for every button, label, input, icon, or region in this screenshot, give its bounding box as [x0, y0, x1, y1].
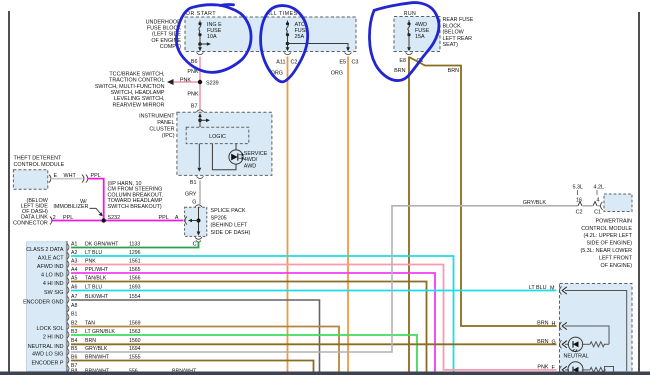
svg-text:5.3L: 5.3L — [573, 184, 584, 190]
svg-text:CLUSTER: CLUSTER — [149, 127, 174, 133]
inline connector — [82, 175, 88, 183]
svg-text:C2: C2 — [291, 60, 298, 66]
svg-text:BLOCK: BLOCK — [443, 23, 462, 29]
pin B6 exit arrow — [199, 46, 201, 48]
rear fuse block caption — [443, 17, 474, 48]
svg-text:PPL: PPL — [63, 215, 73, 221]
svg-text:A7: A7 — [71, 294, 77, 300]
svg-text:A1: A1 — [71, 241, 77, 247]
svg-text:SEAT): SEAT) — [443, 42, 459, 48]
svg-text:CONTROL MODULE: CONTROL MODULE — [14, 162, 65, 168]
wire PNK B6 to IPC — [199, 57, 201, 110]
svg-text:BLK/WHT: BLK/WHT — [85, 294, 109, 300]
svg-text:1560: 1560 — [129, 338, 141, 344]
svg-text:4.2L: 4.2L — [594, 184, 605, 190]
svg-text:WHT: WHT — [64, 173, 77, 179]
svg-text:PANEL: PANEL — [157, 120, 174, 126]
svg-text:A5: A5 — [71, 275, 77, 281]
svg-text:LEFT FRONT: LEFT FRONT — [599, 255, 633, 261]
wire BRN from E8 straight down — [408, 57, 410, 372]
svg-text:25A: 25A — [295, 34, 305, 40]
pin B1 — [67, 314, 69, 321]
svg-text:S232: S232 — [108, 215, 121, 221]
svg-text:B3: B3 — [71, 329, 77, 335]
svg-text:1555: 1555 — [129, 354, 141, 360]
theft deterrent module caption — [14, 156, 65, 169]
svg-text:ALL TIMES: ALL TIMES — [266, 11, 297, 17]
svg-text:ENCODER P: ENCODER P — [31, 361, 63, 367]
svg-text:UNDERHOOD: UNDERHOOD — [146, 19, 181, 25]
svg-text:C2: C2 — [576, 209, 583, 215]
arrow to switch block — [167, 79, 174, 85]
svg-text:1561: 1561 — [129, 258, 141, 264]
wire A6 LT BLU to pin M — [71, 290, 557, 292]
splice pack caption — [211, 208, 251, 236]
switches caption — [95, 71, 165, 108]
transfer case module box — [560, 284, 633, 375]
svg-text:4WD LO SIG: 4WD LO SIG — [32, 352, 63, 358]
svg-text:(5.3L: NEAR LOWER: (5.3L: NEAR LOWER — [580, 248, 632, 254]
svg-text:NEUTRAL IND: NEUTRAL IND — [28, 344, 64, 350]
svg-text:SW SIG: SW SIG — [44, 290, 63, 296]
harness note — [108, 181, 164, 210]
svg-text:PPL: PPL — [91, 173, 101, 179]
wire GRY B1 to splice — [199, 181, 201, 205]
svg-text:1133: 1133 — [129, 241, 140, 247]
wire ORG from E5/C3 — [347, 57, 349, 372]
svg-text:TAN: TAN — [85, 320, 95, 326]
pin A8 — [67, 305, 69, 312]
wire PPL down to S232 — [88, 179, 104, 221]
svg-text:PNK: PNK — [187, 92, 198, 98]
svg-text:A4: A4 — [71, 267, 77, 273]
svg-text:AWD: AWD — [244, 164, 256, 170]
fuse F2 junction and wire to pin E5 — [286, 42, 290, 46]
splice S232 — [102, 218, 106, 222]
pin B6 — [67, 357, 69, 364]
svg-text:B4: B4 — [71, 338, 77, 344]
IPC wire LOGIC to LED — [212, 144, 236, 170]
svg-text:SPLICE PACK: SPLICE PACK — [211, 208, 246, 214]
wire PNK branch to switches — [172, 81, 200, 83]
svg-text:C1: C1 — [594, 209, 601, 215]
svg-text:10A: 10A — [207, 34, 217, 40]
svg-text:A: A — [175, 215, 179, 221]
connector bracket — [66, 241, 68, 372]
neutral LED — [562, 337, 590, 352]
fuse ING E 10A — [199, 21, 201, 48]
svg-text:15A: 15A — [415, 34, 425, 40]
connector signal labels — [23, 247, 64, 367]
immobilizer note with arrow — [53, 199, 102, 216]
splice pack internal — [188, 207, 201, 235]
svg-text:CLASS 2 DATA: CLASS 2 DATA — [26, 247, 64, 253]
wire WHT — [51, 178, 83, 180]
svg-text:TAN/BLK: TAN/BLK — [85, 275, 107, 281]
wire B6 BRN/WHT — [71, 361, 314, 372]
svg-text:RUN: RUN — [404, 11, 416, 17]
wire B4 BRN to pin G — [71, 343, 557, 345]
underhood fuse block box — [185, 17, 356, 52]
svg-text:4 LO IND: 4 LO IND — [41, 273, 64, 279]
wire B5 GRY/BLK to PCM — [71, 206, 578, 352]
svg-text:LEVELING SWITCH,: LEVELING SWITCH, — [114, 96, 165, 102]
pin B1 under IPC — [197, 176, 204, 178]
pin B2 — [67, 323, 69, 330]
svg-text:G: G — [552, 339, 556, 345]
svg-text:AXLE ACT: AXLE ACT — [38, 256, 64, 262]
splice pack box — [185, 207, 207, 236]
pin A4 — [67, 269, 69, 276]
svg-text:A8: A8 — [71, 303, 77, 309]
svg-text:LT BLU: LT BLU — [529, 285, 547, 291]
svg-text:GRY/BLK: GRY/BLK — [523, 200, 547, 206]
svg-text:REAR FUSE: REAR FUSE — [443, 17, 474, 23]
PCM pins 16/C2 and 4/C1 — [573, 184, 605, 215]
pin B4 — [67, 340, 69, 347]
LOGIC box — [186, 127, 249, 143]
svg-text:PNK: PNK — [85, 258, 96, 264]
svg-text:TRACTION CONTROL: TRACTION CONTROL — [109, 78, 164, 84]
svg-text:(IPC): (IPC) — [162, 133, 175, 139]
svg-text:(BELOW: (BELOW — [443, 30, 465, 36]
svg-text:INSTRUMENT: INSTRUMENT — [139, 113, 175, 119]
svg-text:PPL/WHT: PPL/WHT — [85, 267, 109, 273]
svg-text:E5: E5 — [339, 60, 346, 66]
pen circle around ATC fuse — [261, 6, 308, 82]
pen circle around 4WD fuse — [369, 3, 438, 81]
svg-text:B5: B5 — [71, 346, 77, 352]
pin M internal wire — [562, 287, 627, 371]
svg-text:BRN: BRN — [85, 338, 96, 344]
svg-text:ORG: ORG — [331, 71, 343, 77]
pin E5/C3 exit arrow — [346, 47, 350, 51]
service 4WD LED — [229, 150, 244, 164]
wire A5 TAN/BLK — [71, 282, 427, 372]
pin A5 — [67, 278, 69, 285]
svg-text:16: 16 — [576, 197, 582, 203]
wire B2 TAN — [71, 327, 339, 372]
pin B7 — [67, 365, 69, 372]
IPC wire LOGIC to B1 — [198, 144, 200, 168]
svg-text:LOGIC: LOGIC — [209, 134, 226, 140]
pin B5 — [67, 348, 69, 355]
svg-text:GRY: GRY — [185, 191, 197, 197]
svg-text:BRN: BRN — [537, 339, 548, 345]
svg-text:4 HI IND: 4 HI IND — [43, 281, 64, 287]
svg-text:1694: 1694 — [129, 346, 141, 352]
svg-text:SP205: SP205 — [211, 215, 227, 221]
svg-text:(BEHIND LEFT: (BEHIND LEFT — [211, 223, 249, 229]
svg-text:SWITCH, HEADLAMP: SWITCH, HEADLAMP — [111, 90, 165, 96]
svg-text:REARVIEW MIRROR: REARVIEW MIRROR — [112, 102, 164, 108]
theft deterrent module box — [13, 170, 47, 189]
fuse ATC 25A — [286, 21, 288, 48]
svg-text:IMMOBILIZER: IMMOBILIZER — [53, 204, 88, 210]
svg-text:1693: 1693 — [129, 284, 141, 290]
svg-text:POWERTRAIN: POWERTRAIN — [596, 218, 633, 224]
svg-text:A11: A11 — [276, 60, 285, 66]
svg-text:CONNECTOR: CONNECTOR — [13, 220, 48, 226]
svg-text:THEFT DETERENT: THEFT DETERENT — [14, 156, 63, 162]
pin E8/C1 exit arrow — [407, 47, 411, 51]
wire A2 LT BLU — [71, 256, 454, 372]
svg-text:SERVICE: SERVICE — [244, 151, 268, 157]
svg-text:SIDE OF DASH): SIDE OF DASH) — [211, 230, 251, 236]
svg-text:GRY/BLK: GRY/BLK — [85, 346, 108, 352]
svg-text:A6: A6 — [71, 284, 77, 290]
svg-text:AFWD IND: AFWD IND — [37, 264, 64, 270]
svg-text:LT GRN/BLK: LT GRN/BLK — [85, 329, 115, 335]
svg-text:BRN: BRN — [394, 68, 405, 74]
wire A3 PNK to pin F — [71, 265, 557, 370]
pen circle around ING E fuse — [176, 5, 251, 73]
svg-text:H: H — [552, 321, 556, 327]
data link connector caption — [13, 198, 49, 227]
svg-text:SWITCH BREAKOUT): SWITCH BREAKOUT) — [108, 204, 162, 210]
PCM caption — [580, 218, 632, 268]
PCM box — [604, 194, 632, 212]
pin A6 — [67, 287, 69, 294]
svg-text:M: M — [550, 286, 555, 292]
svg-text:2 HI IND: 2 HI IND — [43, 335, 64, 341]
svg-text:S239: S239 — [206, 81, 219, 87]
svg-text:LOCK SOL: LOCK SOL — [37, 326, 64, 332]
fuse F1 junction dot and right arrow — [198, 42, 202, 46]
svg-text:4: 4 — [597, 197, 600, 203]
svg-text:E8: E8 — [399, 58, 406, 64]
wire B3 LT GRN/BLK — [71, 335, 417, 372]
splice pack pin K arc — [185, 217, 187, 225]
svg-text:PNK: PNK — [180, 78, 191, 84]
svg-text:PNK: PNK — [537, 364, 548, 370]
svg-text:ENCODER GND: ENCODER GND — [23, 300, 64, 306]
svg-text:1569: 1569 — [129, 320, 141, 326]
svg-text:(4.2L: UPPER LEFT: (4.2L: UPPER LEFT — [583, 233, 632, 239]
IPC input junction — [199, 117, 201, 127]
svg-text:NEUTRAL: NEUTRAL — [564, 354, 589, 360]
svg-text:1563: 1563 — [129, 329, 141, 335]
svg-text:1566: 1566 — [129, 275, 141, 281]
pin B8 partial row — [67, 374, 69, 375]
svg-text:LEFT REAR: LEFT REAR — [443, 36, 473, 42]
pin A1 — [67, 244, 69, 251]
pin F LED and resistor — [562, 362, 613, 375]
svg-text:C3: C3 — [352, 60, 359, 66]
svg-text:B2: B2 — [71, 320, 77, 326]
svg-text:4WD/: 4WD/ — [244, 157, 258, 163]
pin 2 of DLC — [50, 217, 52, 225]
wire BRN from E8 to pin H — [409, 57, 557, 326]
svg-text:B1: B1 — [71, 311, 77, 317]
pin H internal wire — [562, 322, 609, 344]
pin B3 — [67, 331, 69, 338]
svg-text:SWITCH, MULTI-FUNCTION: SWITCH, MULTI-FUNCTION — [95, 84, 165, 90]
neutral resistor — [590, 342, 609, 347]
svg-text:1565: 1565 — [129, 267, 141, 273]
fuse 4WD 15A — [408, 20, 410, 48]
svg-text:BRN: BRN — [448, 68, 459, 74]
wire ORG from A11/C2 — [287, 57, 289, 372]
svg-text:B1: B1 — [190, 180, 197, 186]
wire DK GRN/WHT from pin C to A1 — [71, 242, 199, 248]
service 4WD caption — [244, 151, 268, 170]
svg-text:PPL: PPL — [159, 215, 169, 221]
svg-text:LT BLU: LT BLU — [85, 284, 102, 290]
svg-text:1554: 1554 — [129, 294, 141, 300]
underhood fuse block caption — [146, 19, 182, 50]
svg-text:DK GRN/WHT: DK GRN/WHT — [85, 241, 119, 247]
splice S239 — [198, 80, 202, 84]
pin A3 — [67, 261, 69, 268]
svg-text:A3: A3 — [71, 258, 77, 264]
pin A11/C2 exit arrow — [286, 47, 290, 51]
rear fuse block (RUN) box — [394, 17, 440, 52]
svg-text:BRN/WHT: BRN/WHT — [85, 354, 110, 360]
svg-text:TCC/BRAKE SWITCH,: TCC/BRAKE SWITCH, — [109, 71, 165, 77]
connector table blue box — [27, 242, 67, 371]
pin C under splice pack — [195, 237, 202, 242]
svg-text:G: G — [192, 200, 196, 206]
pin A7 — [67, 296, 69, 303]
svg-text:CONTROL MODULE: CONTROL MODULE — [581, 226, 632, 232]
wire PPL from DLC to splice pin A — [52, 220, 184, 222]
instrument panel cluster caption — [139, 113, 175, 139]
svg-text:OF ENGINE): OF ENGINE) — [601, 263, 633, 269]
svg-text:B6: B6 — [71, 354, 77, 360]
wire A4 PPL/WHT — [71, 273, 435, 372]
svg-text:OR START: OR START — [186, 11, 216, 17]
svg-text:BRN: BRN — [537, 321, 548, 327]
wire A7 BLK/WHT — [71, 300, 320, 372]
pin A2 — [67, 252, 69, 259]
svg-text:SIDE OF ENGINE): SIDE OF ENGINE) — [586, 241, 632, 247]
IPC box — [177, 112, 272, 175]
svg-text:B7: B7 — [191, 103, 198, 109]
pin E of theft module — [49, 175, 51, 183]
